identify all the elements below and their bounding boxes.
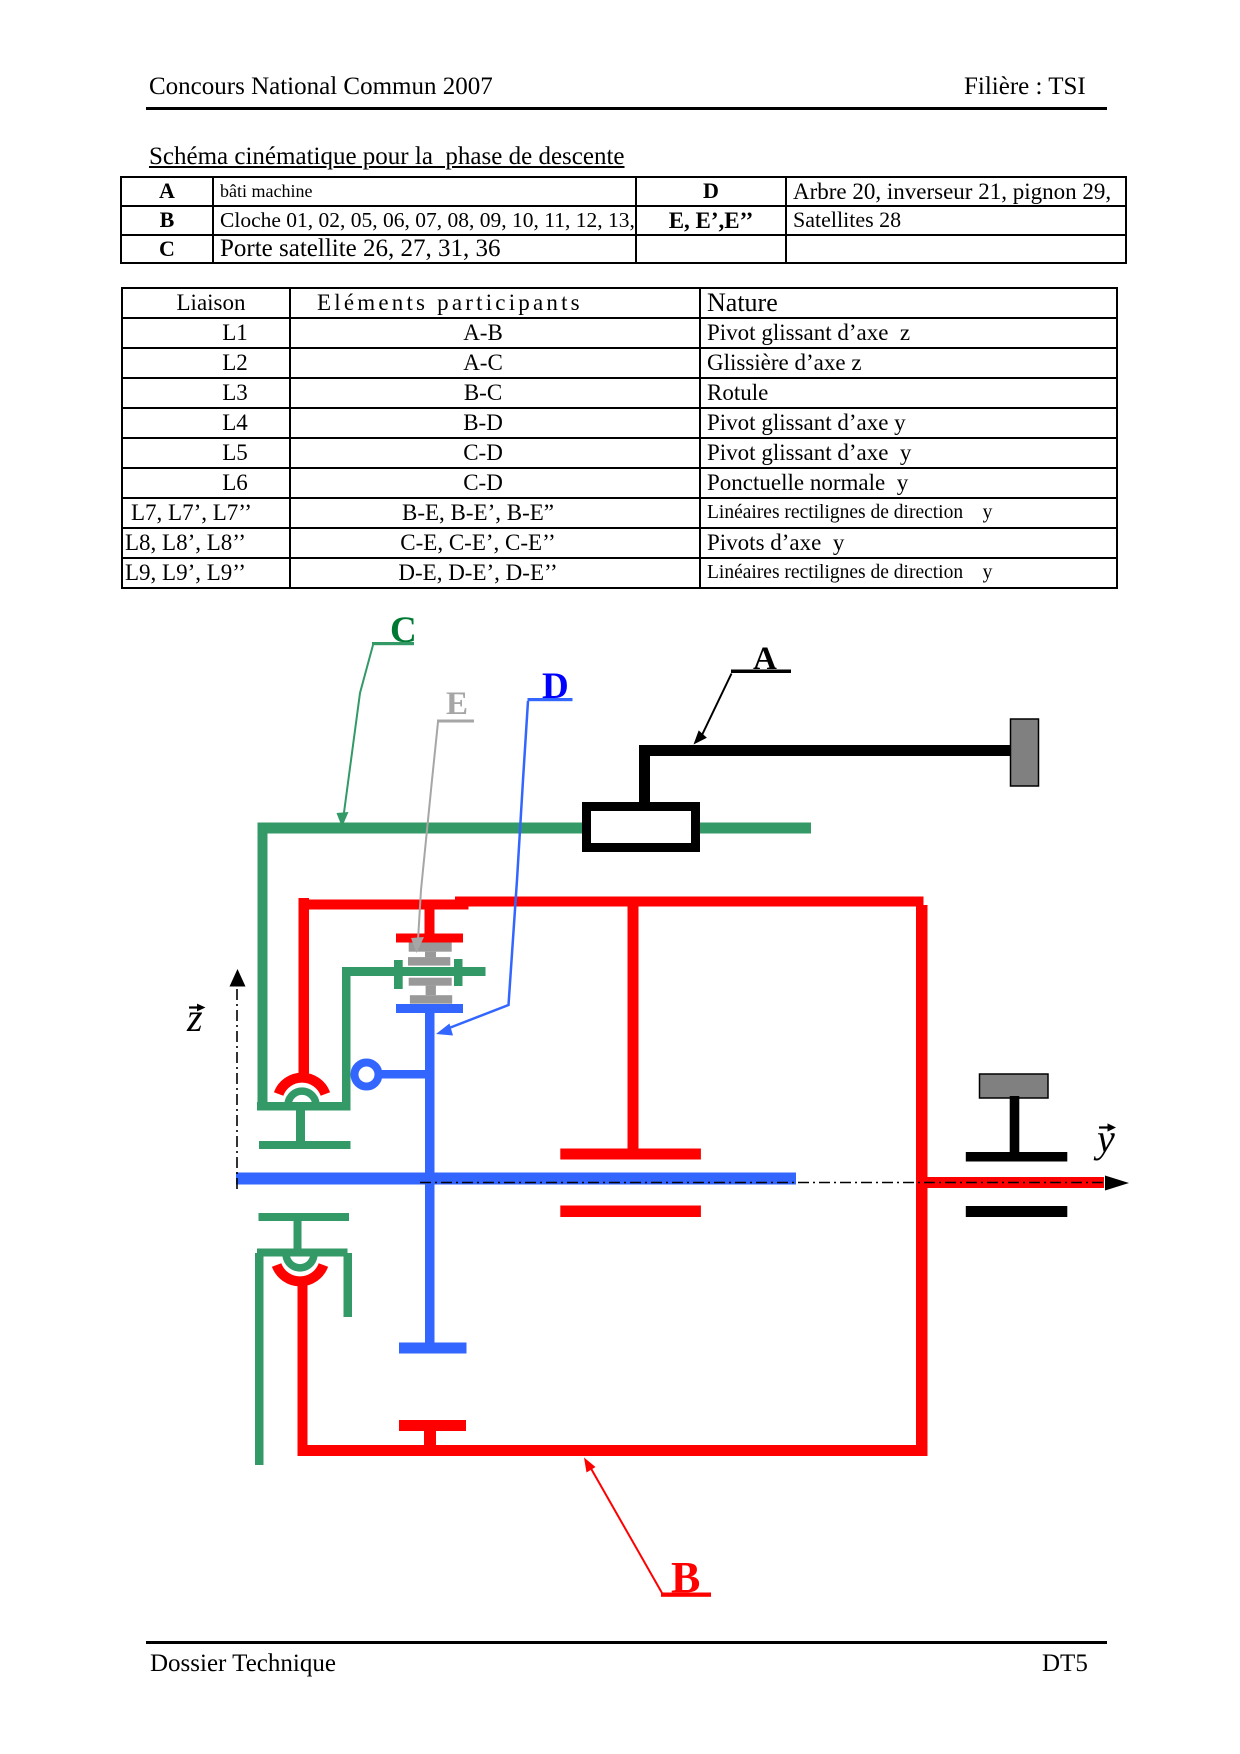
header left text xyxy=(149,73,493,101)
red lower T stub on bottom frame xyxy=(399,1420,466,1431)
leader from C xyxy=(343,645,373,820)
red frame B top horizontal left part xyxy=(299,900,469,910)
red frame B left vertical xyxy=(299,898,310,1080)
link C lower left vertical xyxy=(255,1253,264,1465)
svg-text:z: z xyxy=(186,995,203,1040)
table 2 xyxy=(121,287,1118,589)
satellite E upper hub xyxy=(425,952,436,958)
link C top horizontal bar xyxy=(258,823,811,834)
red middle vertical B (pivot glissant B-D) xyxy=(628,905,639,1153)
link C middle horizontal shaft xyxy=(342,967,486,976)
blue cap below satellite E xyxy=(396,1004,463,1013)
red stub B to satellite E xyxy=(425,906,435,935)
red frame B right vertical xyxy=(916,905,928,1456)
link C lower clevis top bar xyxy=(257,1249,348,1257)
footer rule xyxy=(146,1641,1107,1644)
label B underline xyxy=(661,1593,711,1597)
header right text xyxy=(964,73,1086,101)
red T-bar above axis xyxy=(560,1149,701,1160)
red cap above satellite E xyxy=(396,934,463,943)
svg-text:E: E xyxy=(446,686,468,722)
rotule lower red socket arc xyxy=(277,1265,324,1281)
y-axis arrowhead xyxy=(1105,1176,1129,1191)
rotule B-C upper red socket arc xyxy=(279,1078,326,1094)
label A underline xyxy=(731,670,791,674)
arrowhead of E leader xyxy=(411,937,424,953)
footer right text xyxy=(1042,1650,1088,1678)
red y-axis segment xyxy=(920,1177,1104,1188)
link C lower right vertical xyxy=(344,1253,353,1317)
ground support stem xyxy=(1010,1096,1020,1153)
satellite E upper disc xyxy=(409,943,452,952)
z-axis dash-dot line xyxy=(236,989,238,1190)
link C left tick on shaft xyxy=(394,960,403,989)
arrowhead of C leader xyxy=(337,812,349,827)
footer left text xyxy=(150,1650,336,1678)
red lower T stem xyxy=(424,1429,436,1449)
rotule lower green ball arc xyxy=(286,1256,314,1268)
link D bottom T-bar xyxy=(399,1343,467,1354)
y-axis dash-dot line xyxy=(420,1182,1112,1184)
red bar below axis xyxy=(560,1206,701,1218)
arrowhead of D leader xyxy=(436,1024,453,1036)
z-axis arrowhead xyxy=(230,969,246,987)
link C upper glissiere T-bar xyxy=(259,1141,351,1149)
z-axis label xyxy=(186,995,206,1040)
blue y-axis segment xyxy=(236,1173,796,1185)
pivot C-D small circle xyxy=(355,1063,379,1087)
ground support bar above axis xyxy=(966,1152,1068,1162)
ground support bar below axis xyxy=(966,1206,1068,1217)
ground support at right: gray block xyxy=(980,1074,1049,1098)
blue link circle to shaft xyxy=(377,1070,426,1079)
leader from A xyxy=(702,674,732,736)
slider box (pivot glissant A-C) xyxy=(587,807,696,848)
link D vertical shaft xyxy=(425,1012,435,1343)
link C clevis bottom bar (rotule seat) xyxy=(257,1102,351,1111)
red frame B bottom horizontal xyxy=(298,1445,924,1456)
table 1 xyxy=(120,176,1127,264)
label C underline xyxy=(372,642,414,645)
red stem from lower rotule to bottom frame xyxy=(298,1281,308,1448)
section title xyxy=(149,143,625,171)
link C lower glissiere T-bar xyxy=(259,1213,350,1221)
link A vertical stub to slider xyxy=(639,745,650,805)
ground block of A (gray wall) xyxy=(1011,719,1039,786)
link C lower stem xyxy=(294,1221,302,1249)
link C right vertical bar xyxy=(342,967,351,1110)
satellite E disc below shaft xyxy=(409,978,452,986)
label D underline xyxy=(528,698,573,701)
link A horizontal arm xyxy=(639,745,1012,756)
link C left vertical bar xyxy=(258,823,268,1111)
arrowhead of A leader xyxy=(694,730,707,744)
leader from E xyxy=(418,722,438,940)
satellite E disc above shaft xyxy=(408,957,450,966)
link C stem below clevis xyxy=(296,1110,305,1141)
link C right tick on shaft xyxy=(454,959,463,986)
header rule xyxy=(146,107,1107,110)
svg-text:y: y xyxy=(1093,1116,1115,1161)
satellite E lower disc xyxy=(410,995,452,1004)
satellite E lower hub xyxy=(426,986,436,996)
leader from B xyxy=(589,1465,662,1593)
red frame B top horizontal right part xyxy=(455,897,924,907)
y-axis label xyxy=(1093,1116,1116,1161)
leader from D xyxy=(444,701,528,1030)
rotule B-C upper green ball arc xyxy=(288,1091,316,1103)
arrowhead of B leader xyxy=(584,1458,596,1473)
label E underline xyxy=(437,720,474,723)
